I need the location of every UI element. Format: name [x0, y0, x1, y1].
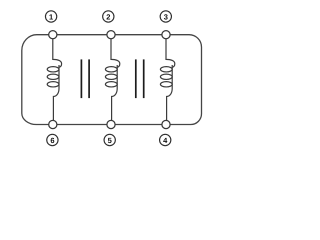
svg-text:6: 6: [50, 136, 54, 145]
svg-text:5: 5: [108, 136, 112, 145]
svg-text:2: 2: [106, 13, 110, 22]
svg-text:1: 1: [49, 13, 53, 22]
svg-text:3: 3: [164, 13, 168, 22]
